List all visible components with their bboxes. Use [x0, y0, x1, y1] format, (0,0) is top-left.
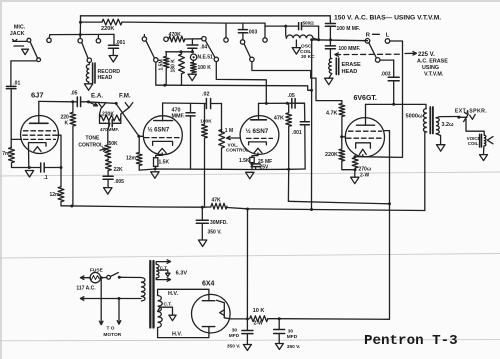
label VOL	[228, 143, 239, 148]
wire screen down to rectifier	[279, 204, 389, 319]
svg-text:220K: 220K	[101, 26, 114, 32]
arrow 225V	[405, 51, 417, 55]
svg-text:50K: 50K	[109, 141, 119, 147]
switch EA wiper arrow	[88, 102, 97, 106]
tube 6SN7a envelope	[143, 116, 182, 155]
svg-text:470K: 470K	[169, 32, 182, 38]
node head common to vertical	[310, 89, 313, 92]
label VOICE	[467, 136, 481, 141]
neon bulb NE51	[190, 54, 196, 60]
switch contact 470K	[164, 37, 168, 41]
svg-text:47K: 47K	[274, 116, 284, 122]
label 220K top	[101, 26, 114, 32]
svg-text:HEAD: HEAD	[98, 75, 113, 81]
svg-text:MMF.: MMF.	[172, 114, 186, 120]
node rectifier out	[246, 317, 249, 320]
wire switch row line	[50, 33, 114, 35]
wire 6V6 plate line	[366, 104, 427, 108]
tube 6SN7b grid dash	[247, 137, 273, 139]
node switch line junction	[79, 33, 82, 36]
label EXT SPKR	[455, 109, 487, 115]
svg-text:350 V.: 350 V.	[287, 344, 300, 350]
resistor 12M 6J7	[58, 187, 64, 206]
label 30MFD	[210, 220, 228, 226]
power switch arm	[110, 273, 118, 277]
svg-text:30 KC: 30 KC	[301, 54, 315, 60]
resistor 10K	[250, 316, 268, 322]
heater winding 6.3V	[156, 264, 159, 278]
fuse	[90, 272, 100, 282]
wire motor a	[100, 278, 102, 323]
svg-text:6V6GT.: 6V6GT.	[354, 95, 377, 102]
svg-text:100 MMF.: 100 MMF.	[338, 46, 361, 52]
svg-text:.001: .001	[292, 130, 302, 136]
ground 30MFD	[198, 240, 206, 247]
mic jack frame contact	[14, 46, 29, 55]
stub contact i	[264, 23, 266, 38]
label .003 erase	[381, 72, 391, 78]
mic jack switch arm	[30, 42, 37, 58]
wire 6J7 side to bus	[57, 135, 62, 187]
heater mid terminal	[166, 273, 170, 276]
terminal R	[365, 39, 370, 44]
wire bus drop left	[80, 16, 82, 22]
switch contact i	[263, 38, 267, 42]
wire bus right	[227, 208, 425, 211]
label .05 6J7	[71, 91, 78, 97]
scan artifact grey line upper	[0, 172, 500, 176]
label COIL vc	[468, 141, 479, 146]
resistor 220K 6V6	[339, 137, 345, 161]
label 10K	[253, 308, 265, 314]
label CT HV	[164, 302, 172, 307]
tube 6J7 grid dash 1	[24, 130, 56, 132]
wire to FM	[88, 102, 114, 103]
tube 6V6 envelope	[345, 118, 384, 157]
svg-text:12m: 12m	[126, 156, 137, 162]
record head coil	[86, 65, 89, 83]
label 1M	[225, 128, 233, 134]
wire b+ upper line	[288, 201, 389, 204]
resistor 47K plate	[286, 103, 292, 169]
label L	[386, 33, 390, 39]
label 30 a	[232, 328, 238, 334]
power switch pole	[118, 276, 121, 279]
wire 25MF stub	[255, 167, 257, 170]
wire grid branch	[11, 138, 21, 140]
svg-text:½ 6SN7: ½ 6SN7	[148, 127, 170, 134]
label HV top	[168, 291, 178, 297]
wire osc coil drop	[285, 26, 288, 38]
svg-text:MIC.: MIC.	[14, 25, 26, 31]
node divider b	[191, 50, 194, 53]
switch contact b	[78, 39, 82, 43]
wire switch to primary	[119, 276, 141, 278]
svg-text:150 V. A.C. BIAS— USING V.T.V.: 150 V. A.C. BIAS— USING V.T.V.M.	[334, 15, 441, 22]
mic jack sleeve line	[13, 40, 27, 42]
svg-text:100K: 100K	[200, 119, 212, 125]
svg-text:HEAD: HEAD	[342, 69, 358, 75]
switch contact e	[154, 58, 158, 62]
svg-text:COIL: COIL	[468, 141, 479, 146]
node osc junction	[284, 25, 287, 28]
label 3.2ohm	[442, 122, 454, 128]
svg-text:1 M: 1 M	[225, 128, 233, 134]
resistor 1.5K a	[154, 158, 158, 167]
label MOTOR	[103, 332, 121, 338]
svg-text:C.T.: C.T.	[164, 302, 172, 307]
mic jack tip hook	[13, 40, 17, 42]
label CT heater	[160, 265, 168, 270]
label TONE	[86, 136, 100, 142]
label half 6SN7 a	[148, 127, 170, 134]
label 47K b	[274, 116, 284, 122]
svg-text:T O: T O	[107, 326, 115, 332]
capacitor 100MMF upper	[325, 21, 335, 40]
stub contact b	[79, 35, 81, 39]
tube 6SN7a plate bar	[154, 103, 173, 121]
tone right stub	[121, 108, 129, 124]
tube 6J7 envelope	[21, 116, 59, 154]
tube 6J7 top cap lead	[38, 101, 40, 123]
wire 6SN7b cathode lead	[252, 153, 258, 157]
svg-text:.02: .02	[202, 92, 210, 98]
ground erase head	[325, 78, 333, 85]
wire 6V6 screen stub	[384, 130, 389, 132]
wire osc divider top	[166, 51, 194, 53]
node gnd line a	[154, 168, 157, 171]
label ERASE	[342, 62, 362, 68]
switch arm R	[369, 43, 377, 58]
ground 6SN7b cathode	[246, 172, 254, 179]
wire 220K 6V6 bottom	[342, 161, 355, 170]
node osc coil right	[317, 38, 320, 41]
wire head common line	[156, 62, 312, 90]
ground record head	[84, 82, 92, 90]
svg-text:.01: .01	[13, 80, 20, 86]
resistor 1.5M	[163, 52, 169, 85]
node 6SN7a grid	[137, 135, 140, 138]
svg-text:4.7K: 4.7K	[326, 111, 337, 117]
wire tone chain	[108, 123, 110, 145]
ground voice coil	[480, 155, 488, 161]
wire pot bottom	[221, 148, 223, 169]
capacitor .01	[6, 86, 16, 147]
switch contact j	[240, 40, 244, 44]
resistor 1.5K b	[250, 157, 254, 162]
wire 6J7 grid line top	[39, 100, 73, 102]
ground HV CT	[169, 315, 176, 321]
heater tap top	[156, 260, 170, 265]
wire sec to jack	[459, 116, 467, 118]
svg-text:6J7: 6J7	[31, 91, 44, 100]
label HEAD	[342, 69, 358, 75]
stub contact play 1	[48, 35, 51, 39]
svg-text:1.5K: 1.5K	[159, 160, 170, 166]
erase head coil	[329, 59, 332, 74]
heater tap mid	[159, 270, 168, 273]
label 500	[303, 21, 315, 26]
tube 6J7 cathode bracket	[29, 143, 47, 147]
label OSC	[301, 44, 312, 50]
label 150V bias	[334, 15, 441, 22]
capacitor 470MMF tone	[100, 120, 121, 127]
capacitor .05 b	[292, 99, 295, 109]
wire 1.5K b to line	[251, 163, 253, 170]
wire staircase to 6V6 grid feed	[252, 62, 342, 101]
label 30 b	[288, 329, 294, 335]
tube 6SN7b plate bar	[251, 103, 267, 119]
label 270ohm	[359, 167, 372, 173]
wire HV top to plate	[158, 289, 209, 295]
wire main B+ bus	[61, 206, 211, 207]
label JACK	[10, 31, 25, 37]
switch EA contact	[98, 103, 106, 108]
tube 6V6 cathode arrow	[359, 149, 366, 154]
svg-text:Pentron T-3: Pentron T-3	[364, 333, 458, 349]
capacitor 470MMF plate	[186, 103, 195, 168]
node screen b+ junction	[388, 202, 391, 205]
ground 6SN7a cathode	[151, 172, 159, 179]
capacitor 25MF	[251, 164, 260, 167]
label HV bottom	[172, 332, 182, 338]
resistor 7M	[9, 147, 15, 167]
wire 220K to switch line	[122, 22, 226, 23]
wire erase drop from bus	[329, 16, 331, 21]
svg-text:100 M MF.: 100 M MF.	[337, 26, 361, 32]
wire 6J7 cathode line	[12, 167, 40, 169]
ext speaker jack contact	[470, 114, 476, 119]
label 100MMF upper	[337, 26, 361, 32]
wire 6SN7a plate line	[163, 102, 206, 105]
svg-text:H.V.: H.V.	[168, 291, 178, 297]
voice coil	[484, 135, 486, 146]
switch arm f	[205, 41, 215, 58]
tube 6SN7a grid dash	[145, 137, 182, 139]
label .001 b	[292, 130, 302, 136]
output transformer core	[430, 107, 433, 134]
svg-text:30MFD.: 30MFD.	[210, 220, 228, 226]
svg-text:500Ω: 500Ω	[303, 21, 315, 26]
output transformer secondary	[436, 118, 439, 134]
svg-text:OSC: OSC	[301, 44, 312, 50]
wire 6SN7a grid stub	[139, 135, 144, 137]
switch arm j	[244, 44, 250, 58]
HV winding	[158, 296, 163, 328]
arrow motor b	[117, 320, 121, 324]
svg-text:2-W: 2-W	[254, 321, 263, 327]
switch arm to record head	[82, 42, 88, 58]
switch contact g	[214, 57, 218, 61]
svg-text:.04: .04	[200, 45, 207, 51]
node 6V6 cathode	[354, 155, 357, 158]
svg-text:COIL: COIL	[300, 49, 312, 55]
label .01	[13, 80, 20, 86]
label 180K	[171, 59, 177, 73]
node plate line junction	[392, 103, 395, 106]
label F.M.	[119, 93, 131, 100]
wire bus to rectifier	[246, 209, 248, 319]
wire fuse to switch	[101, 277, 107, 279]
label 12M 6J7	[50, 192, 61, 198]
ground 6J7 cathode	[25, 171, 33, 178]
label N.E.51	[198, 55, 214, 61]
record head lead	[88, 62, 90, 64]
label K plate	[65, 121, 69, 127]
label 100MMF lower	[338, 46, 361, 52]
label USING	[422, 65, 439, 71]
node after 10K	[278, 317, 281, 320]
svg-text:CONTROL: CONTROL	[78, 143, 103, 149]
label 4.7K	[326, 111, 337, 117]
terminal R lower	[375, 58, 380, 63]
ext speaker jack arrow	[464, 110, 468, 122]
capacitor .1	[41, 163, 61, 172]
tube 6SN7b cathode bracket	[249, 142, 267, 145]
switch FM contact	[125, 103, 133, 108]
label 6J7	[31, 91, 44, 100]
resistor 270 ohm	[352, 158, 358, 169]
node head common junction	[163, 84, 166, 87]
node FM junction	[115, 102, 118, 105]
arrow motor a	[99, 321, 103, 325]
label 470MMF tone	[100, 127, 119, 132]
node divider a	[179, 50, 182, 53]
capacitor 30MFD a	[242, 319, 253, 344]
svg-text:350 V.: 350 V.	[227, 344, 240, 350]
svg-text:1.5M: 1.5M	[159, 59, 165, 70]
wire L line	[355, 41, 403, 157]
label AC ERASE	[417, 59, 448, 65]
svg-text:3.2ω: 3.2ω	[442, 122, 454, 128]
label TO	[107, 326, 115, 332]
wire 10K to node	[268, 318, 279, 320]
wire voice coil gnd lead	[483, 146, 485, 154]
heater tap bottom	[156, 278, 170, 282]
tube 6SN7a cathode bracket	[153, 141, 173, 145]
ground 6V6 cathode	[351, 170, 359, 184]
erase head core	[336, 58, 338, 75]
svg-text:2-W: 2-W	[360, 173, 369, 179]
node 6J7 cathode junction	[28, 166, 31, 169]
label .003	[248, 30, 258, 36]
pot 1M wiper arrow	[227, 136, 241, 140]
wire 6V6 grid stub	[342, 136, 346, 138]
node 6V6 cathode bottom	[354, 168, 357, 171]
label 30KC	[301, 54, 315, 60]
svg-text:117 A.C.: 117 A.C.	[76, 286, 96, 292]
terminal L	[385, 39, 390, 44]
capacitor .003 osc	[238, 23, 247, 40]
svg-text:A.C. ERASE: A.C. ERASE	[417, 59, 448, 65]
wire b-line	[216, 62, 266, 104]
label 5000ohm	[406, 114, 423, 120]
label 2-W	[360, 173, 369, 179]
label R-L dash	[373, 33, 380, 35]
resistor 220K tone	[100, 115, 121, 121]
label 470K	[169, 32, 182, 38]
wire 6J7 cathode drop	[28, 147, 30, 168]
ground 100K	[188, 73, 196, 81]
tube 6J7 cathode arrow	[34, 147, 41, 152]
label HEAD	[98, 75, 113, 81]
wire vol pot top	[221, 104, 223, 133]
ground secondary	[437, 145, 445, 152]
resistor 100K	[191, 60, 197, 72]
svg-text:5000ω: 5000ω	[406, 114, 423, 120]
label .04	[200, 45, 207, 51]
svg-text:K: K	[65, 121, 69, 127]
capacitor 500 osc	[299, 23, 319, 30]
resistor 4.7K	[339, 101, 345, 137]
wire primary bottom to bus	[425, 132, 427, 211]
svg-text:EXT. SPKR.: EXT. SPKR.	[455, 109, 487, 115]
svg-text:6.3V: 6.3V	[176, 271, 188, 277]
label half 6SN7 b	[246, 127, 269, 135]
power transformer primary	[141, 278, 145, 302]
resistor 220K 6J7 plate	[70, 102, 76, 206]
svg-text:.003: .003	[248, 30, 258, 36]
node bus filter	[201, 206, 204, 209]
tube 6J7 grid dash 3	[24, 138, 56, 140]
svg-text:220K: 220K	[325, 152, 338, 158]
dashed 225V line	[335, 53, 402, 57]
resistor 470K	[169, 36, 185, 42]
scan artifact grey line lower	[0, 340, 500, 341]
svg-text:1.5K: 1.5K	[239, 158, 250, 164]
node ext spkr	[457, 116, 460, 119]
label 1.5M	[159, 59, 165, 70]
svg-text:N.E.51: N.E.51	[198, 55, 214, 61]
label COIL	[300, 49, 312, 55]
label 6V6GT	[354, 95, 377, 102]
capacitor 30MFD b	[274, 319, 285, 343]
wire secondary bottom	[436, 134, 441, 145]
stub contact h	[225, 23, 227, 38]
pot 50K wiper	[100, 148, 107, 152]
svg-text:TONE: TONE	[86, 136, 100, 142]
capacitor .003 erase	[388, 60, 399, 104]
label E.A.	[91, 93, 103, 100]
wire 6X4 cathode out	[224, 318, 247, 319]
label 220K 6V6	[325, 152, 338, 158]
svg-text:10 K: 10 K	[253, 308, 265, 314]
tone left stub	[100, 108, 102, 123]
node bus feed	[246, 208, 249, 211]
wire screen vertical	[389, 131, 391, 204]
svg-text:½ 6SN7: ½ 6SN7	[246, 127, 269, 135]
wire R lower line	[380, 59, 394, 61]
svg-text:6X4: 6X4	[202, 281, 215, 288]
label 100K	[198, 65, 212, 71]
label 1.5K b	[239, 158, 250, 164]
label MFD b	[287, 334, 298, 340]
label RECORD	[98, 69, 121, 75]
label VTVM	[424, 72, 444, 78]
tube 6X4 cathode	[217, 300, 225, 317]
svg-text:.05: .05	[288, 93, 295, 99]
label CONTROL	[78, 143, 103, 149]
label 220K tone	[102, 112, 114, 118]
svg-text:350 V.: 350 V.	[208, 230, 223, 236]
tube 6V6 plate bar	[357, 104, 375, 125]
label .005	[114, 179, 124, 185]
wire 1.5K a to gnd line	[154, 166, 156, 169]
label .05 b	[288, 93, 295, 99]
node 47K gnd line	[287, 168, 290, 171]
potentiometer 50K	[105, 145, 111, 158]
resistor 12M grid	[136, 136, 142, 170]
